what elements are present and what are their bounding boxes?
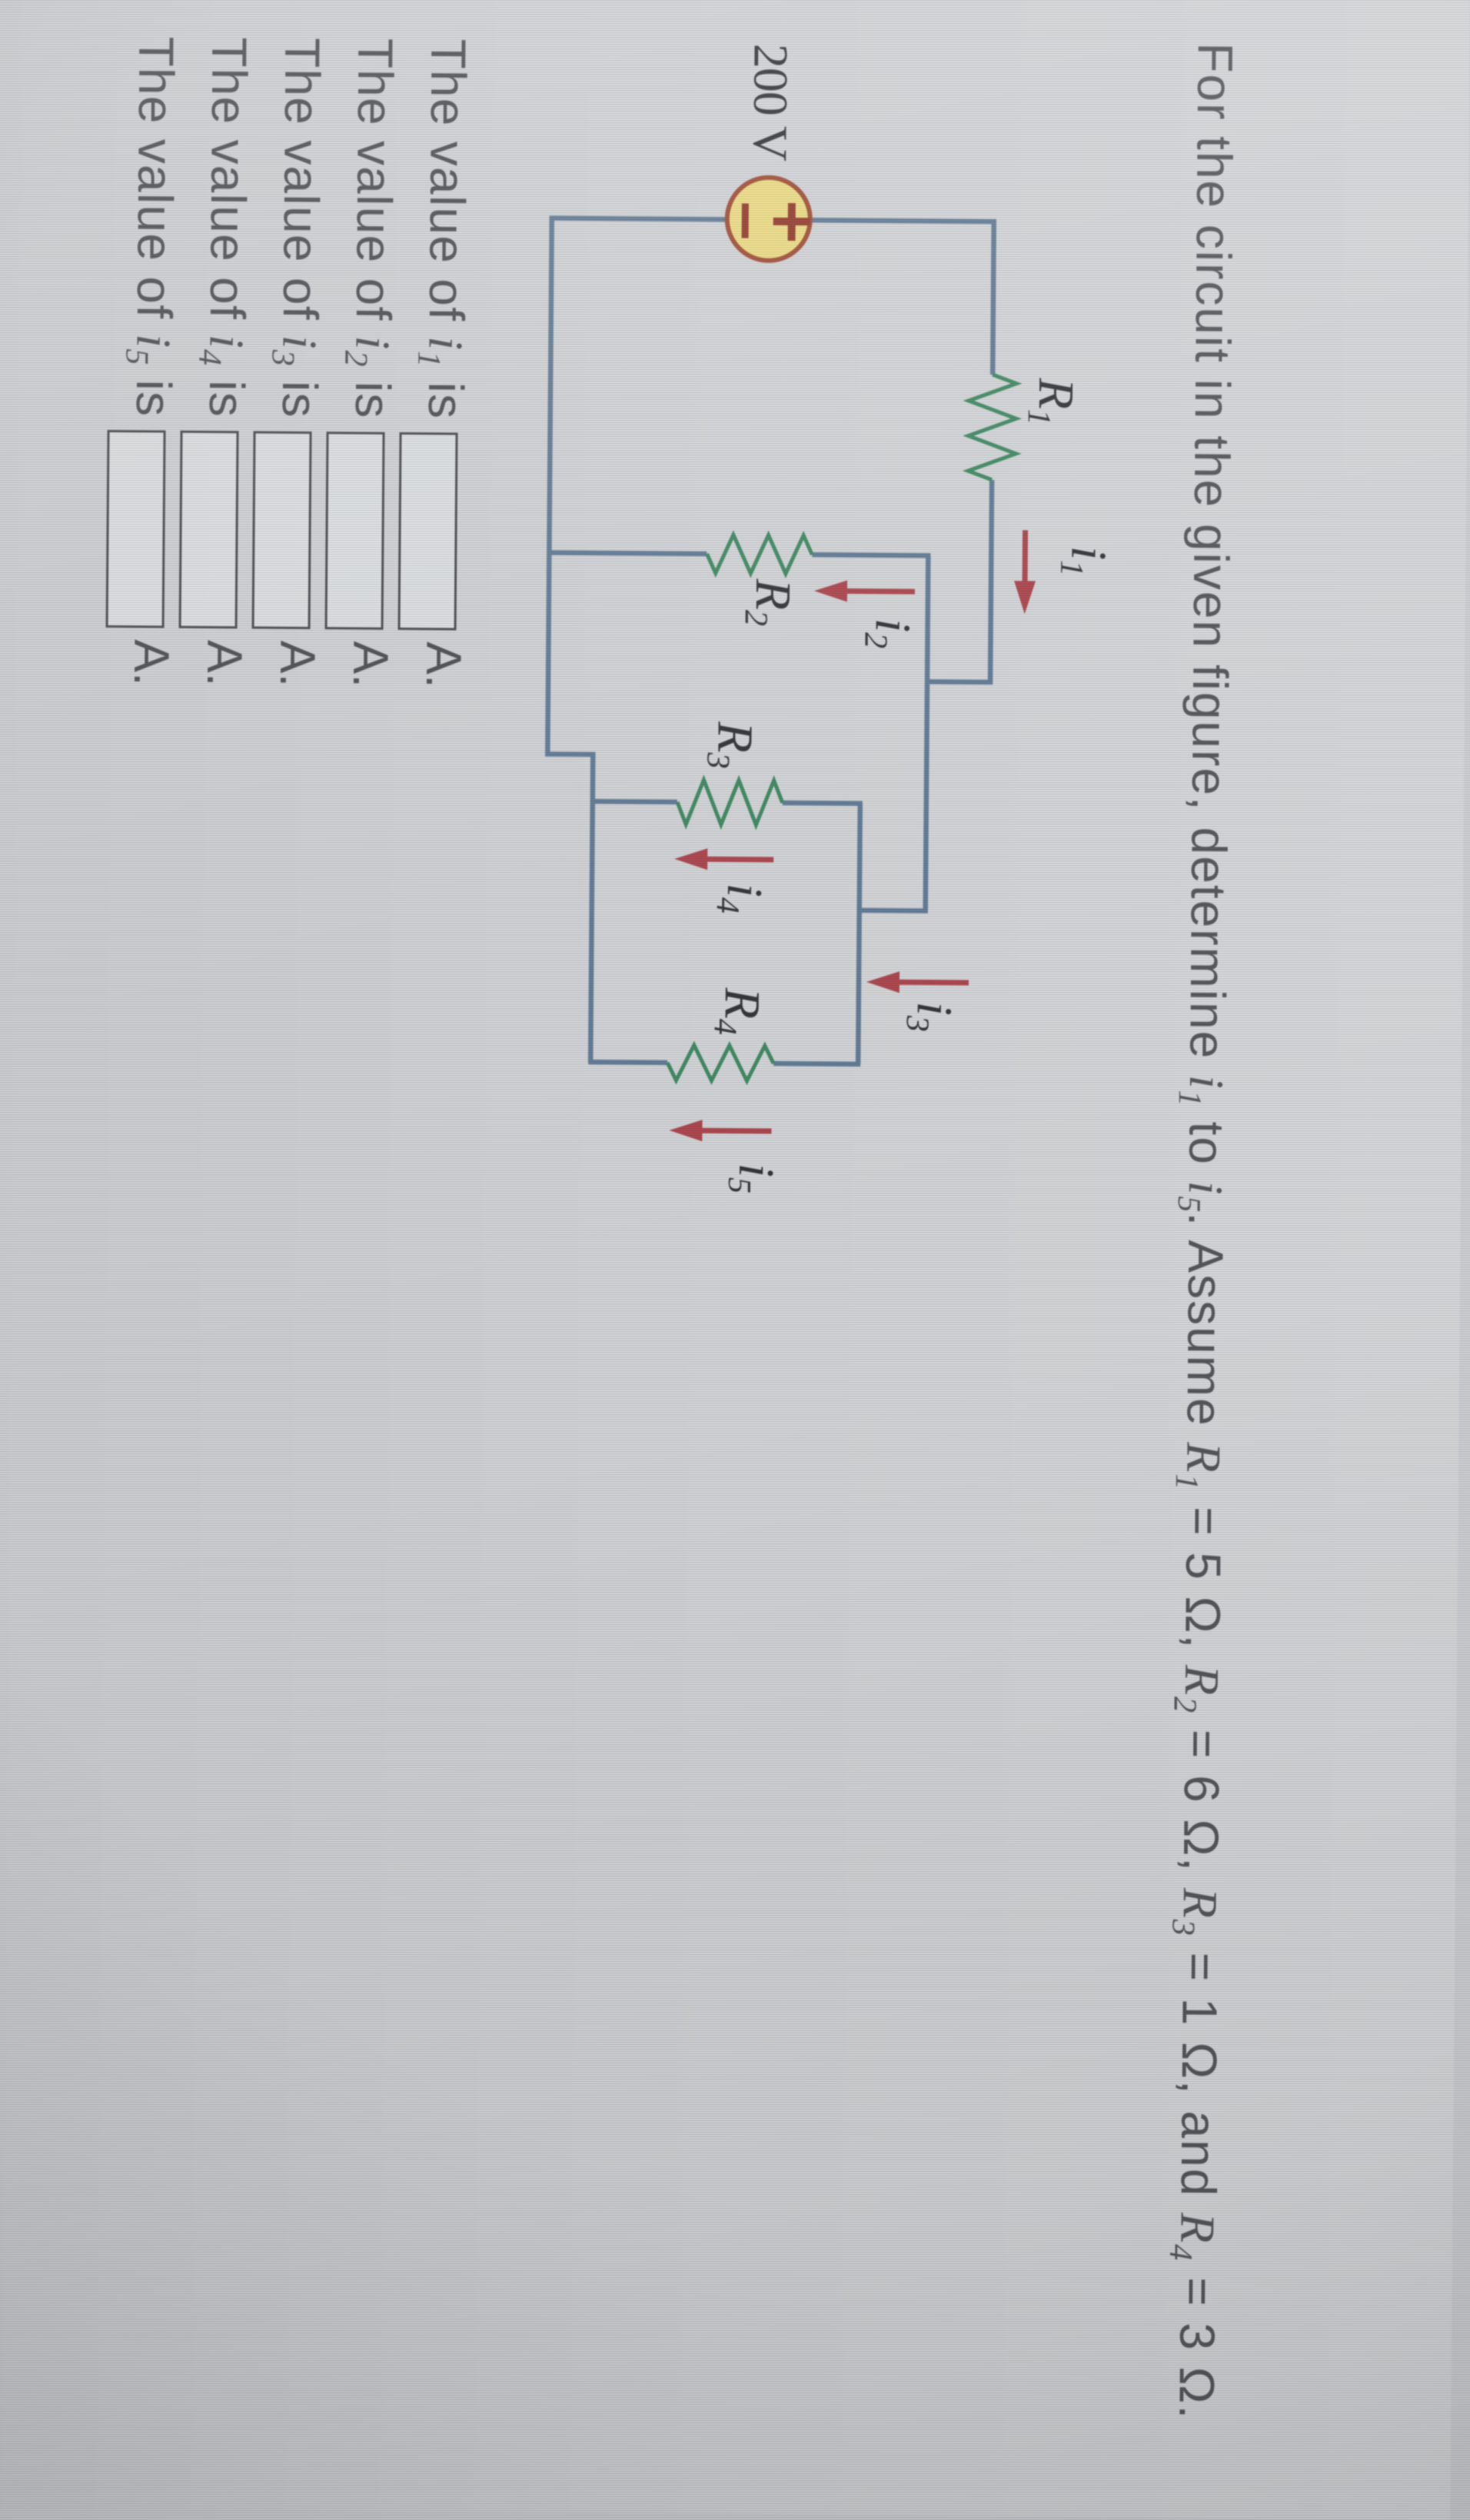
svg-text:200 V: 200 V <box>743 44 798 161</box>
svg-text:R3: R3 <box>700 721 763 769</box>
svg-text:i2: i2 <box>857 618 920 649</box>
svg-text:i4: i4 <box>710 883 773 914</box>
svg-text:i1: i1 <box>1053 546 1116 577</box>
svg-text:i5: i5 <box>721 1163 784 1193</box>
svg-text:R2: R2 <box>738 578 801 627</box>
svg-text:R1: R1 <box>1021 377 1084 425</box>
svg-text:R4: R4 <box>707 987 770 1035</box>
svg-text:i3: i3 <box>899 1001 962 1032</box>
